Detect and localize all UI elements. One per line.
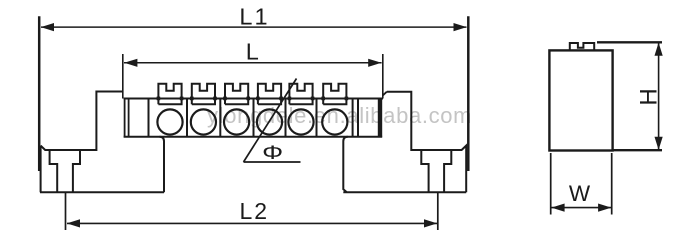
dimension H extension bottom — [614, 149, 663, 151]
screw units — [157, 84, 349, 135]
dimension L1 line — [41, 26, 467, 28]
side view — [549, 42, 662, 214]
strip left end wall — [124, 99, 126, 137]
arrowhead L right — [368, 59, 381, 67]
right bracket outline — [343, 92, 466, 193]
dimension L2 extension left — [65, 193, 67, 230]
screw 6 head — [323, 84, 346, 105]
svg-text:L: L — [246, 39, 259, 65]
screw 5 head — [289, 84, 312, 105]
cell divider 4 — [253, 99, 255, 137]
screw 1 head — [158, 84, 181, 105]
side view body — [549, 50, 612, 150]
screw 3 head — [225, 84, 248, 105]
dimension L1 extension right — [467, 16, 470, 171]
left bracket bottom edge — [40, 191, 164, 193]
dimension L line — [124, 62, 382, 64]
screw 3 hole — [224, 109, 249, 134]
dimension H line — [658, 43, 660, 150]
arrowhead H bottom — [655, 137, 663, 150]
screw 5 hole — [288, 109, 313, 134]
svg-text:W: W — [569, 181, 591, 206]
dimension L2 line — [67, 222, 437, 224]
cell divider 7 — [352, 99, 354, 137]
dimension W extension right — [611, 153, 613, 215]
arrowhead H top — [655, 43, 663, 56]
label Phi — [262, 141, 283, 163]
left bracket foot slot — [50, 150, 80, 192]
screw 4 head — [258, 84, 281, 105]
arrowhead L1 right — [454, 23, 467, 31]
dimension L1 extension left — [38, 16, 41, 171]
diameter leader line — [244, 79, 301, 163]
strip bottom edge — [124, 136, 383, 138]
left bracket outline — [41, 92, 123, 193]
arrowhead L left — [124, 59, 137, 67]
dimension L extension right — [382, 54, 384, 99]
dimension L2 extension right — [437, 193, 439, 230]
svg-text:L1: L1 — [239, 4, 269, 30]
svg-text:L2: L2 — [240, 198, 270, 224]
screw 6 hole — [322, 109, 347, 134]
cell divider 1 — [148, 99, 150, 137]
cell divider 3 — [219, 99, 221, 137]
cell divider 6 — [316, 99, 318, 137]
arrowhead L1 left — [41, 23, 54, 31]
screw 1 hole — [157, 109, 182, 134]
svg-text:Φ: Φ — [262, 141, 283, 163]
right bracket foot slot — [421, 150, 451, 192]
screw 2 head — [192, 84, 215, 105]
strip top edge — [124, 98, 383, 100]
dimension H extension top — [597, 41, 662, 43]
cell divider 2 — [186, 99, 188, 137]
dimension W line — [552, 207, 612, 209]
cell divider 8 — [357, 99, 359, 137]
cell divider 5 — [285, 99, 287, 137]
dimension L extension left — [122, 54, 124, 99]
arrowhead W left — [551, 204, 564, 212]
dimension W extension left — [550, 153, 552, 215]
side view top tab — [570, 43, 594, 50]
screw 2 hole — [191, 109, 216, 134]
left bracket inner edge with corner — [160, 137, 165, 193]
arrowhead L2 left — [67, 219, 80, 227]
arrowhead L2 right — [424, 219, 437, 227]
right shoulder chamfer — [383, 92, 387, 96]
svg-text:H: H — [635, 88, 662, 105]
arrowhead W right — [598, 204, 611, 212]
screw 4 hole — [257, 109, 282, 134]
strip right end thick wall — [378, 98, 382, 137]
